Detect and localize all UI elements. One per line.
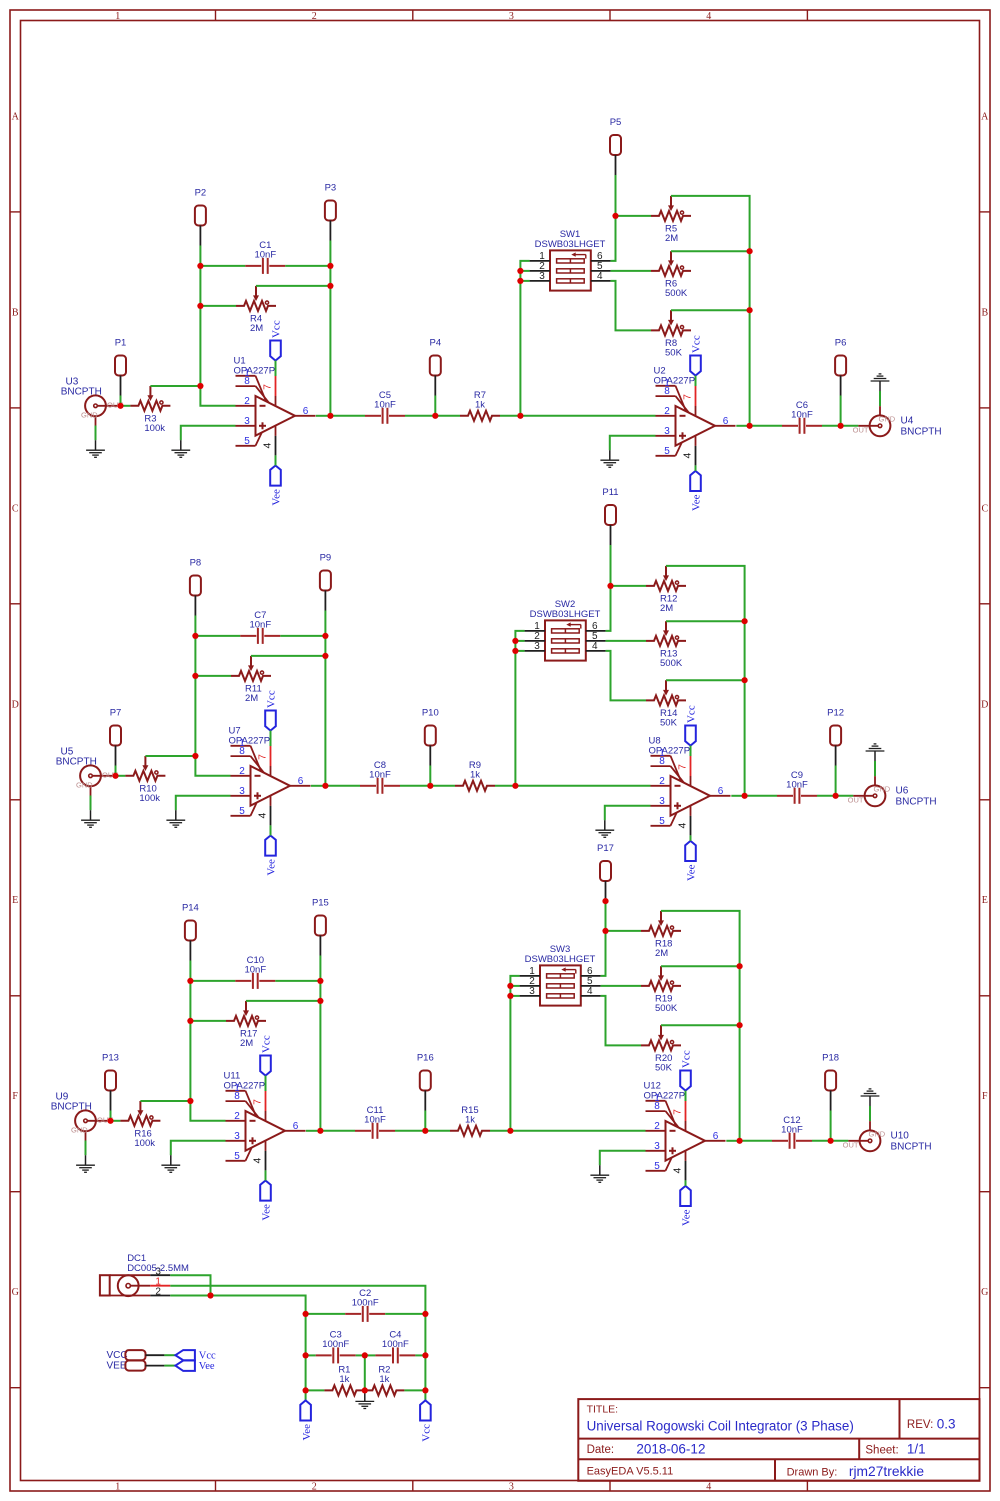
- svg-text:GND: GND: [81, 410, 98, 419]
- svg-text:1k: 1k: [465, 1115, 475, 1126]
- wire: [195, 675, 231, 677]
- potentiometer R3 100k: [130, 386, 170, 434]
- wire: [176, 796, 231, 810]
- svg-text:5: 5: [244, 436, 250, 447]
- op-amp U2 OPA227P: [654, 366, 736, 466]
- junction: [507, 983, 513, 989]
- svg-text:P18: P18: [822, 1053, 839, 1064]
- svg-text:P16: P16: [417, 1053, 434, 1064]
- wire: [275, 455, 277, 465]
- junction: [742, 677, 748, 683]
- header VCC: [107, 1350, 165, 1361]
- svg-text:Vee: Vee: [266, 859, 278, 876]
- svg-text:3: 3: [234, 1131, 240, 1142]
- svg-text:7: 7: [681, 394, 693, 400]
- svg-text:P4: P4: [429, 338, 441, 349]
- junction: [117, 403, 123, 409]
- power flag Vee: [265, 836, 278, 876]
- wire: [319, 1001, 321, 1131]
- wire: [606, 930, 642, 932]
- resistor R9 1k: [455, 760, 495, 791]
- title block: [578, 1399, 979, 1481]
- junction: [317, 998, 323, 1004]
- capacitor C8 10nF: [360, 760, 400, 794]
- svg-text:3: 3: [509, 11, 514, 22]
- svg-text:B: B: [12, 307, 19, 318]
- wire: [329, 241, 331, 266]
- pin header P1: [115, 338, 127, 396]
- pin header P18: [822, 1053, 839, 1111]
- wire: [666, 620, 745, 622]
- power flag Vcc: [260, 1035, 273, 1075]
- svg-text:3: 3: [654, 1141, 660, 1152]
- wire: [319, 981, 321, 1001]
- junction: [317, 1128, 323, 1134]
- svg-text:10nF: 10nF: [791, 410, 813, 421]
- wire: [695, 465, 697, 471]
- wire: [199, 266, 201, 306]
- wire: [164, 1365, 175, 1367]
- wire: [606, 586, 611, 631]
- power flag Vee: [300, 1400, 313, 1440]
- svg-text:P1: P1: [115, 338, 127, 349]
- svg-text:6: 6: [298, 776, 304, 787]
- capacitor C9 10nF: [777, 770, 817, 804]
- wire: [831, 1140, 849, 1142]
- svg-text:D: D: [981, 699, 988, 710]
- capacitor C5 10nF: [365, 390, 405, 424]
- svg-text:500K: 500K: [660, 658, 683, 669]
- svg-text:DC005-2.5MM: DC005-2.5MM: [127, 1263, 189, 1274]
- svg-text:4: 4: [676, 823, 688, 829]
- junction: [362, 1387, 368, 1393]
- svg-text:4: 4: [251, 1158, 263, 1164]
- svg-text:0.3: 0.3: [937, 1417, 956, 1432]
- svg-text:TITLE:: TITLE:: [587, 1403, 619, 1415]
- wire: [164, 1354, 175, 1356]
- svg-text:6: 6: [293, 1121, 299, 1132]
- wire: [306, 1354, 316, 1356]
- svg-text:OUT: OUT: [848, 796, 864, 805]
- svg-text:3: 3: [529, 986, 535, 997]
- wire: [739, 966, 741, 1025]
- wire: [671, 196, 750, 251]
- wire: [190, 1020, 226, 1022]
- potentiometer R6 500K: [651, 251, 691, 299]
- wire: [311, 785, 326, 787]
- wire: [822, 425, 841, 427]
- svg-text:10nF: 10nF: [781, 1125, 803, 1136]
- capacitor C4 100nF: [375, 1330, 415, 1364]
- wire: [189, 961, 191, 981]
- wire: [95, 426, 97, 441]
- pin header P7: [110, 708, 122, 766]
- svg-text:100k: 100k: [139, 793, 160, 804]
- svg-text:500K: 500K: [665, 288, 688, 299]
- power flag Vcc: [690, 335, 703, 375]
- wire: [424, 1355, 426, 1390]
- svg-text:500K: 500K: [655, 1003, 678, 1014]
- svg-text:10nF: 10nF: [369, 770, 391, 781]
- wire: [510, 995, 519, 997]
- wire: [285, 265, 330, 267]
- junction: [607, 583, 613, 589]
- svg-text:6: 6: [303, 406, 309, 417]
- svg-text:2: 2: [654, 1121, 660, 1132]
- resistor R1 1k: [324, 1365, 364, 1396]
- svg-text:7: 7: [256, 754, 268, 760]
- ground: [600, 450, 619, 467]
- wire: [435, 415, 460, 417]
- svg-text:1k: 1k: [470, 770, 480, 781]
- svg-text:Vcc: Vcc: [681, 1050, 693, 1068]
- svg-text:8: 8: [244, 376, 250, 387]
- svg-text:10nF: 10nF: [374, 400, 396, 411]
- svg-text:U10: U10: [891, 1130, 910, 1141]
- wire: [306, 1389, 325, 1391]
- wire: [194, 636, 196, 676]
- svg-text:2M: 2M: [660, 603, 673, 614]
- svg-text:B: B: [981, 307, 988, 318]
- junction: [833, 793, 839, 799]
- svg-text:2M: 2M: [250, 323, 263, 334]
- wire: [840, 396, 842, 426]
- svg-text:Sheet:: Sheet:: [865, 1445, 898, 1457]
- wire: [170, 1275, 210, 1295]
- junction: [422, 1311, 428, 1317]
- capacitor C2 100nF: [345, 1288, 385, 1322]
- wire: [385, 1313, 425, 1315]
- wire: [610, 436, 656, 450]
- pin header P10: [422, 708, 439, 766]
- header VEE: [107, 1361, 165, 1372]
- wire: [194, 616, 196, 636]
- svg-text:2: 2: [155, 1287, 161, 1298]
- svg-text:2: 2: [234, 1111, 240, 1122]
- junction: [432, 413, 438, 419]
- wire: [601, 996, 641, 1046]
- wire: [189, 1021, 191, 1101]
- svg-text:rjm27trekkie: rjm27trekkie: [849, 1464, 924, 1479]
- svg-text:C: C: [12, 503, 19, 514]
- junction: [747, 423, 753, 429]
- DIP switch SW2 DSWB03LHGET: [525, 599, 606, 660]
- svg-text:Vcc: Vcc: [691, 335, 703, 353]
- junction: [517, 413, 523, 419]
- potentiometer R14 50K: [646, 680, 686, 728]
- svg-text:1k: 1k: [379, 1374, 389, 1385]
- power flag Vee: [270, 466, 283, 506]
- junction: [747, 248, 753, 254]
- wire: [611, 585, 647, 587]
- svg-text:Vcc: Vcc: [271, 320, 283, 338]
- wire: [319, 956, 321, 981]
- wire: [324, 611, 326, 636]
- svg-text:5: 5: [659, 816, 665, 827]
- svg-text:10nF: 10nF: [244, 965, 266, 976]
- wire: [601, 931, 606, 976]
- wire: [415, 1354, 425, 1356]
- svg-text:1: 1: [115, 11, 120, 22]
- ground: [166, 810, 185, 827]
- svg-text:8: 8: [234, 1091, 240, 1102]
- ruler row letters: [12, 111, 990, 1298]
- wire: [246, 1000, 320, 1002]
- svg-text:Vee: Vee: [199, 1361, 215, 1372]
- wire: [150, 385, 200, 387]
- wire: [356, 1354, 365, 1356]
- potentiometer R16 100k: [120, 1101, 160, 1149]
- junction: [197, 263, 203, 269]
- pin header P8: [190, 558, 202, 616]
- svg-text:50K: 50K: [660, 717, 678, 728]
- svg-text:P8: P8: [190, 558, 202, 569]
- svg-text:Vee: Vee: [686, 864, 698, 881]
- svg-text:BNCPTH: BNCPTH: [56, 756, 97, 767]
- wire: [195, 635, 240, 637]
- svg-text:EasyEDA V5.5.11: EasyEDA V5.5.11: [587, 1466, 674, 1478]
- svg-text:REV:: REV:: [907, 1419, 933, 1431]
- svg-text:P15: P15: [312, 898, 329, 909]
- svg-text:GND: GND: [71, 1125, 88, 1134]
- svg-text:Vee: Vee: [681, 1209, 693, 1226]
- wire: [874, 761, 876, 776]
- svg-text:7: 7: [671, 1109, 683, 1115]
- svg-text:P11: P11: [602, 487, 618, 498]
- svg-text:BNCPTH: BNCPTH: [901, 426, 942, 437]
- wire: [515, 785, 650, 787]
- svg-text:2: 2: [244, 396, 250, 407]
- wire: [515, 640, 524, 642]
- pin header P6: [835, 338, 847, 396]
- svg-text:GND: GND: [874, 784, 891, 793]
- svg-text:3: 3: [539, 271, 545, 282]
- wire: [305, 1314, 307, 1356]
- power flag Vee: [685, 841, 698, 881]
- svg-text:A: A: [12, 111, 20, 122]
- op-amp U12 OPA227P: [644, 1081, 726, 1181]
- pin header P5: [610, 117, 622, 175]
- svg-text:Vcc: Vcc: [261, 1035, 273, 1053]
- svg-text:OPA227P: OPA227P: [644, 1091, 686, 1102]
- svg-text:4: 4: [671, 1168, 683, 1174]
- svg-text:OPA227P: OPA227P: [649, 746, 691, 757]
- wire: [251, 655, 325, 657]
- svg-text:F: F: [12, 1091, 18, 1102]
- BNC connector U6: [848, 776, 937, 807]
- wire: [749, 310, 751, 426]
- svg-text:P12: P12: [827, 708, 844, 719]
- wire: [306, 1313, 346, 1315]
- junction: [422, 1128, 428, 1134]
- junction: [512, 638, 518, 644]
- svg-text:100k: 100k: [134, 1138, 155, 1149]
- svg-text:7: 7: [251, 1099, 263, 1105]
- wire: [731, 795, 744, 797]
- junction: [747, 307, 753, 313]
- power flag Vee: [690, 471, 703, 511]
- svg-text:8: 8: [239, 746, 245, 757]
- svg-text:Vcc: Vcc: [266, 690, 278, 708]
- op-amp U11 OPA227P: [224, 1071, 306, 1171]
- wire: [605, 901, 607, 931]
- svg-text:2: 2: [312, 1482, 317, 1493]
- svg-text:10nF: 10nF: [786, 780, 808, 791]
- capacitor C10 10nF: [235, 955, 275, 989]
- resistor R7 1k: [460, 390, 500, 421]
- wire: [330, 415, 365, 417]
- wire: [200, 305, 236, 307]
- wire: [325, 785, 360, 787]
- wire: [365, 1354, 376, 1356]
- junction: [303, 1387, 309, 1393]
- pin header P12: [827, 708, 844, 766]
- svg-text:1k: 1k: [475, 400, 485, 411]
- svg-text:100nF: 100nF: [322, 1339, 349, 1350]
- potentiometer R17 2M: [226, 1001, 266, 1049]
- wire: [745, 795, 777, 797]
- wire: [275, 361, 277, 376]
- wire: [726, 1140, 739, 1142]
- DIP switch SW3 DSWB03LHGET: [520, 944, 601, 1005]
- wire: [740, 1140, 772, 1142]
- junction: [507, 993, 513, 999]
- op-amp U7 OPA227P: [229, 726, 311, 826]
- svg-text:A: A: [981, 111, 989, 122]
- svg-text:GND: GND: [869, 1129, 886, 1138]
- junction: [507, 1128, 513, 1134]
- svg-text:100k: 100k: [144, 423, 165, 434]
- junction: [517, 268, 523, 274]
- wire: [265, 1170, 267, 1180]
- potentiometer R8 50K: [651, 310, 691, 358]
- potentiometer R13 500K: [646, 621, 686, 669]
- pin header P2: [195, 188, 207, 246]
- capacitor C3 100nF: [316, 1330, 356, 1364]
- svg-text:OPA227P: OPA227P: [224, 1081, 266, 1092]
- wire: [690, 746, 692, 756]
- wire: [404, 1389, 425, 1391]
- wire: [610, 545, 612, 586]
- capacitor C11 10nF: [355, 1105, 395, 1139]
- pin header P3: [325, 183, 337, 241]
- potentiometer R11 2M: [231, 656, 271, 704]
- wire: [750, 425, 782, 427]
- svg-text:Vee: Vee: [271, 489, 283, 506]
- junction: [737, 1022, 743, 1028]
- svg-text:2: 2: [239, 766, 245, 777]
- wire: [510, 976, 519, 986]
- wire: [190, 980, 235, 982]
- wire: [736, 425, 749, 427]
- wire: [199, 306, 201, 386]
- wire: [256, 285, 330, 287]
- svg-text:3: 3: [239, 786, 245, 797]
- svg-text:4: 4: [256, 813, 268, 819]
- junction: [602, 898, 608, 904]
- wire: [121, 405, 131, 407]
- svg-text:P9: P9: [320, 553, 332, 564]
- svg-text:U6: U6: [896, 785, 909, 796]
- wire: [111, 1120, 121, 1122]
- potentiometer R10 100k: [125, 756, 165, 804]
- BNC connector U5: [56, 747, 119, 796]
- svg-text:5: 5: [654, 1161, 660, 1172]
- svg-text:D: D: [12, 699, 19, 710]
- junction: [327, 283, 333, 289]
- DIP switch SW1 DSWB03LHGET: [530, 229, 611, 290]
- svg-text:6: 6: [723, 416, 729, 427]
- svg-text:3: 3: [659, 796, 665, 807]
- junction: [737, 1138, 743, 1144]
- power flag Vcc: [265, 690, 278, 730]
- svg-text:4: 4: [261, 443, 273, 449]
- svg-text:P13: P13: [102, 1053, 119, 1064]
- junction: [197, 303, 203, 309]
- junction: [303, 1352, 309, 1358]
- wire: [510, 985, 519, 987]
- pin header P15: [312, 898, 329, 956]
- junction: [322, 783, 328, 789]
- wire: [324, 636, 326, 656]
- wire: [739, 1025, 741, 1141]
- junction: [602, 928, 608, 934]
- wire: [600, 1151, 646, 1165]
- svg-text:4: 4: [587, 986, 593, 997]
- wire: [316, 415, 331, 417]
- wire: [520, 261, 529, 271]
- svg-text:P5: P5: [610, 117, 622, 128]
- svg-text:E: E: [982, 895, 988, 906]
- svg-text:GND: GND: [879, 414, 896, 423]
- resistor R2 1k: [364, 1365, 404, 1396]
- junction: [112, 773, 118, 779]
- svg-text:100nF: 100nF: [382, 1339, 409, 1350]
- wire: [744, 621, 746, 680]
- junction: [517, 278, 523, 284]
- op-amp U1 OPA227P: [234, 356, 316, 456]
- capacitor C6 10nF: [782, 400, 822, 434]
- wire: [661, 965, 740, 967]
- junction: [742, 793, 748, 799]
- svg-text:P7: P7: [110, 708, 122, 719]
- svg-text:DSWB03LHGET: DSWB03LHGET: [525, 954, 596, 965]
- pin header P14: [182, 903, 199, 961]
- svg-text:7: 7: [261, 384, 273, 390]
- wire: [171, 1141, 226, 1155]
- svg-text:4: 4: [592, 641, 598, 652]
- wire: [661, 911, 740, 966]
- svg-text:U4: U4: [901, 415, 914, 426]
- wire: [661, 1024, 740, 1026]
- svg-text:P6: P6: [835, 338, 847, 349]
- svg-text:10nF: 10nF: [254, 250, 276, 261]
- wire: [110, 1111, 112, 1121]
- junction: [187, 978, 193, 984]
- junction: [303, 1311, 309, 1317]
- svg-text:P3: P3: [325, 183, 337, 194]
- junction: [737, 963, 743, 969]
- wire: [140, 1100, 190, 1102]
- pin header P4: [429, 338, 441, 396]
- wire: [520, 280, 529, 282]
- ground: [355, 1391, 374, 1408]
- svg-text:2: 2: [664, 406, 670, 417]
- wire: [606, 651, 646, 701]
- potentiometer R5 2M: [651, 196, 691, 244]
- ground: [86, 440, 105, 457]
- wire: [170, 1286, 425, 1314]
